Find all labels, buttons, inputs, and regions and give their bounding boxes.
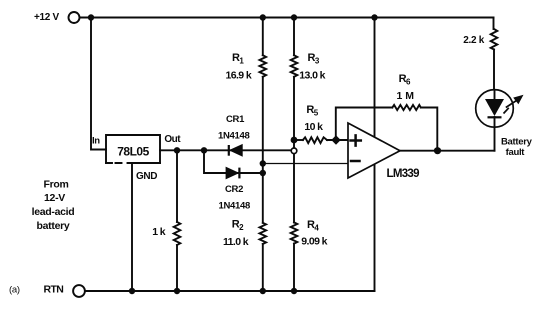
svg-text:From: From (43, 179, 68, 191)
svg-text:(a): (a) (9, 285, 20, 296)
svg-text:1 M: 1 M (397, 90, 415, 102)
svg-text:LM339: LM339 (387, 168, 420, 180)
svg-text:1N4148: 1N4148 (219, 201, 250, 212)
svg-text:Battery: Battery (501, 137, 533, 148)
svg-text:9.09 k: 9.09 k (301, 236, 327, 248)
svg-text:2.2 k: 2.2 k (463, 35, 484, 46)
svg-text:10 k: 10 k (304, 121, 323, 133)
svg-text:12-V: 12-V (44, 192, 65, 204)
svg-text:RTN: RTN (44, 284, 64, 296)
svg-text:lead-acid: lead-acid (32, 206, 75, 218)
svg-text:In: In (92, 136, 100, 147)
svg-text:Out: Out (164, 134, 181, 145)
svg-text:CR2: CR2 (225, 184, 243, 195)
svg-text:13.0 k: 13.0 k (299, 70, 325, 82)
svg-text:+12 V: +12 V (34, 12, 60, 23)
svg-text:CR1: CR1 (226, 114, 245, 125)
svg-text:1 k: 1 k (152, 226, 166, 238)
svg-text:16.9 k: 16.9 k (226, 70, 252, 82)
svg-text:battery: battery (37, 220, 70, 232)
svg-text:78L05: 78L05 (117, 144, 149, 158)
svg-text:fault: fault (506, 147, 526, 158)
svg-text:11.0 k: 11.0 k (223, 236, 249, 248)
svg-text:1N4148: 1N4148 (218, 131, 249, 142)
svg-text:GND: GND (136, 171, 157, 182)
